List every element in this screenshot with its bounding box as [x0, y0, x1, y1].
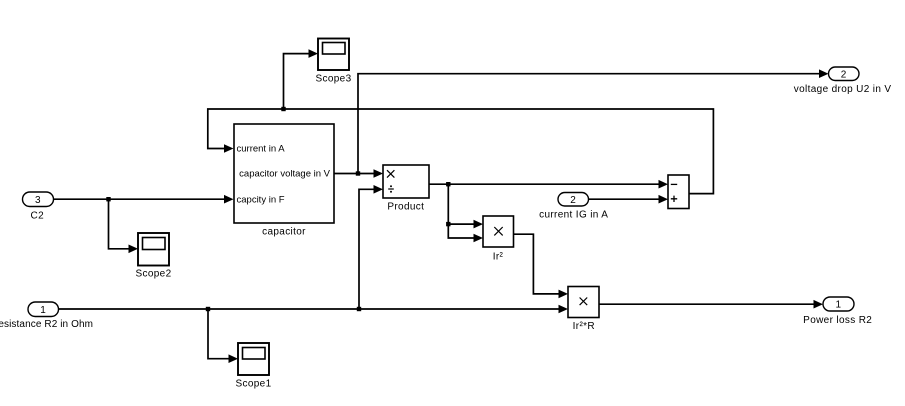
- node: junction on feedback line branching to Scope3: [281, 107, 285, 111]
- block Product: [383, 165, 429, 213]
- block Ir2: [483, 216, 514, 262]
- wire: capacitor voltage output to Product first input: [334, 173, 375, 175]
- wire: inport 2 current IG to Sum plus input: [589, 198, 661, 200]
- wire: branch from feedback to Scope3: [284, 54, 311, 109]
- inport 3 C2: [23, 192, 54, 221]
- block Scope3: [315, 39, 351, 85]
- arrowhead into Product x input: [374, 169, 384, 178]
- wire: Ir2 output to Ir2*R first input: [514, 234, 561, 294]
- block capacitor subsystem: [234, 124, 334, 238]
- node: junction continuing down to Ir2 second input: [446, 222, 450, 226]
- svg-text:capacitor: capacitor: [262, 227, 306, 238]
- inport 1 resistance R2 in Ohm: [0, 302, 93, 330]
- wire: branch from product output down to Ir2 first input: [448, 184, 475, 224]
- wire: branch down to Ir2 second input: [448, 224, 475, 238]
- arrowhead into outport 1 Power loss: [814, 300, 824, 309]
- wire: inport 3 C2 to capacitor capcity input: [54, 198, 227, 200]
- inport 2 current IG in A: [539, 193, 608, 221]
- svg-text:Scope3: Scope3: [315, 74, 351, 85]
- svg-text:voltage drop U2 in V: voltage drop U2 in V: [794, 84, 892, 95]
- node: junction on resistance rail branching to Scope1: [206, 307, 210, 311]
- svg-text:current IG in A: current IG in A: [539, 210, 608, 221]
- block Ir2*R: [568, 287, 599, 332]
- svg-text:resistance R2 in Ohm: resistance R2 in Ohm: [0, 319, 93, 330]
- outport 2 voltage drop U2 in V: [794, 67, 892, 95]
- wire: branch from resistance rail down to Scope1: [208, 309, 230, 359]
- arrowhead into Ir2*R second input: [559, 305, 569, 314]
- block Sum: [668, 175, 689, 209]
- arrowhead into Scope3: [309, 49, 319, 58]
- svg-text:capcity in F: capcity in F: [237, 195, 285, 206]
- node: junction on C2 line branching to Scope2: [106, 197, 110, 201]
- arrowhead into Sum minus input: [659, 180, 669, 189]
- svg-text:capacitor voltage in V: capacitor voltage in V: [239, 169, 330, 180]
- arrowhead into Sum plus input: [659, 195, 669, 204]
- arrowhead into outport 2 voltage drop: [819, 69, 829, 78]
- outport 1 Power loss R2: [803, 297, 872, 326]
- wire: Product output to Sum minus input: [429, 183, 660, 185]
- node: junction on product output branching down to Ir2: [446, 182, 450, 186]
- wire: inport 1 resistance rail to Ir2*R second input: [59, 308, 561, 310]
- block Scope2: [135, 233, 171, 279]
- svg-text:current in A: current in A: [237, 144, 286, 155]
- arrowhead into Ir2*R first input: [559, 290, 569, 299]
- arrowhead into Scope2: [129, 245, 139, 254]
- svg-text:Ir²: Ir²: [493, 251, 504, 262]
- svg-text:Power loss R2: Power loss R2: [803, 315, 872, 326]
- svg-text:2: 2: [841, 69, 847, 80]
- svg-text:3: 3: [35, 195, 41, 206]
- svg-text:C2: C2: [31, 210, 45, 221]
- arrowhead into Scope1: [229, 354, 239, 363]
- arrowhead into capacitor current in A: [224, 144, 234, 153]
- wire: sum output feedback to capacitor current input: [208, 109, 714, 194]
- arrowhead into Ir2 first input: [474, 220, 484, 229]
- svg-text:1: 1: [40, 305, 46, 316]
- svg-text:2: 2: [570, 195, 576, 206]
- arrowhead into Ir2 second input: [474, 234, 484, 243]
- node: junction on resistance rail branching up to Product divide input: [357, 307, 361, 311]
- block Scope1: [235, 343, 271, 390]
- node: junction on voltage line branching up to outport 2: [356, 171, 360, 175]
- svg-text:1: 1: [836, 300, 842, 311]
- arrowhead into capacitor capcity in F: [224, 195, 234, 204]
- svg-text:Scope1: Scope1: [235, 379, 271, 390]
- svg-text:Product: Product: [387, 202, 424, 213]
- svg-text:Scope2: Scope2: [135, 268, 171, 279]
- svg-text:Ir²*R: Ir²*R: [573, 321, 595, 332]
- wire: branch from resistance rail up to Product divide input: [359, 189, 375, 309]
- arrowhead into Product divide input: [374, 185, 384, 194]
- wire: capacitor voltage up and right to voltage drop outport: [358, 74, 821, 174]
- wire: Ir2*R output to Power loss outport: [599, 303, 815, 305]
- wire: branch from C2 line down to Scope2: [109, 199, 131, 249]
